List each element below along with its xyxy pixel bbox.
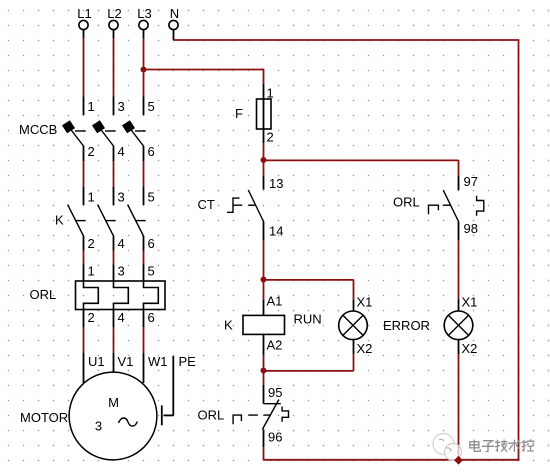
- svg-text:6: 6: [148, 236, 155, 251]
- svg-text:6: 6: [148, 310, 155, 325]
- svg-text:ORL: ORL: [30, 287, 57, 302]
- svg-text:L2: L2: [107, 6, 121, 21]
- wire N rail right: [518, 40, 520, 461]
- overload ORL box: [76, 281, 166, 310]
- wire ORL to motor 3: [143, 327, 145, 353]
- svg-text:4: 4: [118, 144, 125, 159]
- overload contact ORL-NO link: [443, 204, 451, 206]
- svg-text:96: 96: [268, 430, 282, 445]
- wire MCCB to K pole 2: [113, 161, 115, 187]
- terminal L3: [139, 20, 148, 29]
- watermark text kong: [521, 440, 526, 451]
- svg-text:U1: U1: [88, 354, 105, 369]
- overload ORL heater 1: [84, 281, 99, 310]
- lamp RUN cross: [343, 315, 363, 335]
- wire node3 down: [263, 371, 265, 386]
- wire ORL pin stub pole 2: [113, 265, 115, 282]
- contactor K pole 2 dash: [105, 220, 116, 222]
- svg-text:14: 14: [269, 224, 283, 239]
- motor M1 body: [69, 372, 157, 460]
- wire node1 to ORL97 branch: [264, 159, 459, 161]
- svg-text:ERROR: ERROR: [383, 318, 430, 333]
- wire CT to node2: [263, 240, 265, 280]
- wire ORL pin stub pole 1: [83, 265, 85, 282]
- svg-text:2: 2: [88, 236, 95, 251]
- svg-text:5: 5: [148, 99, 155, 114]
- svg-text:L3: L3: [137, 6, 151, 21]
- svg-text:4: 4: [118, 236, 125, 251]
- svg-text:A1: A1: [267, 294, 283, 309]
- contactor K pole 3 contact arm: [128, 205, 144, 236]
- wire error lamp to bottom: [458, 354, 460, 460]
- fuse F body: [257, 99, 272, 129]
- wire node2 to lamp X1: [264, 279, 354, 281]
- terminal L1: [79, 20, 88, 29]
- wire motor pin V1: [113, 353, 115, 373]
- wire L3 junction to MCCB: [143, 70, 145, 97]
- svg-text:1: 1: [88, 264, 95, 279]
- overload contact ORL-NO actuator: [429, 205, 439, 214]
- wire fuse to node: [263, 143, 265, 160]
- wire N stub: [173, 30, 175, 40]
- node control junction 3: [261, 368, 267, 374]
- wire K to ORL pole 3: [143, 251, 145, 265]
- wire K to ORL pole 2: [113, 251, 115, 265]
- wire motor pin U1: [83, 353, 85, 383]
- wire ORL to motor 1: [83, 327, 85, 353]
- contactor K pole 2 bottom pin: [113, 236, 115, 251]
- wire L2 stub: [113, 30, 115, 38]
- svg-text:ORL: ORL: [198, 408, 225, 423]
- motor frame PE bar: [161, 405, 163, 425]
- wire L2 to MCCB: [113, 38, 115, 97]
- svg-text:3: 3: [118, 190, 125, 205]
- contactor K pole 3 top pin: [143, 187, 145, 205]
- svg-text:3: 3: [118, 264, 125, 279]
- lamp RUN pin X1 stub: [353, 300, 355, 311]
- svg-text:M: M: [108, 395, 119, 410]
- breaker MCCB pole 3 top pin: [143, 97, 145, 116]
- fuse F element: [263, 99, 265, 129]
- terminal L2: [109, 20, 118, 29]
- lamp ERROR cross: [448, 315, 468, 335]
- node L3 junction: [141, 67, 147, 73]
- breaker MCCB pole 1 release dash: [75, 130, 86, 132]
- svg-text:3: 3: [118, 99, 125, 114]
- svg-text:X2: X2: [357, 341, 373, 356]
- wire N rail top: [174, 39, 520, 41]
- svg-text:1: 1: [88, 99, 95, 114]
- contactor K pole 3 dash: [135, 220, 146, 222]
- breaker MCCB pole 1 contact arm: [69, 127, 84, 147]
- overload contact ORL-NC actuator: [233, 415, 241, 424]
- wire ORL pin bottom stub 2: [113, 310, 115, 328]
- node control junction 1: [261, 157, 267, 163]
- wire K to ORL pole 1: [83, 251, 85, 265]
- wire L3 to junction: [143, 38, 145, 70]
- watermark text shu: [508, 440, 520, 452]
- svg-text:5: 5: [148, 190, 155, 205]
- breaker MCCB pole 1 top pin: [83, 97, 85, 116]
- coil K pin A2 stub: [263, 334, 265, 355]
- button CT contact arm: [248, 190, 263, 222]
- wire node3 to lamp X2: [264, 370, 354, 372]
- button CT link: [248, 204, 255, 206]
- button CT top pin: [263, 176, 265, 190]
- overload contact ORL-NC top pin: [263, 385, 265, 404]
- breaker MCCB pole 1 mechanism square: [62, 120, 75, 133]
- svg-text:V1: V1: [118, 354, 134, 369]
- breaker MCCB pole 3 bottom pin: [143, 146, 145, 161]
- overload ORL heater 2: [114, 281, 129, 310]
- node bottom junction: [454, 456, 463, 465]
- wire ORL pin bottom stub 3: [143, 310, 145, 328]
- contactor K pole 1 top pin: [83, 187, 85, 205]
- wire PE elbow: [164, 414, 174, 416]
- overload contact ORL-NC seat: [264, 403, 281, 405]
- contactor K pole 2 contact arm: [98, 205, 114, 236]
- svg-text:MCCB: MCCB: [19, 122, 57, 137]
- fuse F bottom pin: [263, 129, 265, 143]
- wire ORL to motor 2: [113, 327, 115, 353]
- overload contact ORL-NO top pin: [458, 176, 460, 190]
- contactor K pole 1 bottom pin: [83, 236, 85, 251]
- svg-text:5: 5: [148, 264, 155, 279]
- watermark logo circles: [433, 434, 462, 461]
- wire lamp to node3 branch: [353, 354, 355, 371]
- breaker MCCB pole 2 mechanism square: [92, 120, 105, 133]
- svg-text:X1: X1: [357, 295, 373, 310]
- coil K body: [243, 315, 285, 334]
- svg-text:2: 2: [88, 144, 95, 159]
- svg-text:6: 6: [148, 144, 155, 159]
- breaker MCCB pole 2 bottom pin: [113, 146, 115, 161]
- contactor K pole 1 dash: [75, 220, 86, 222]
- overload ORL heater 3: [144, 281, 159, 310]
- svg-text:K: K: [55, 213, 64, 228]
- overload contact ORL-NC arm: [262, 400, 279, 430]
- fuse F top pin: [263, 84, 265, 99]
- overload contact ORL-NO trip hook: [477, 196, 484, 216]
- svg-text:K: K: [224, 318, 233, 333]
- contactor K pole 1 contact arm: [68, 205, 84, 236]
- svg-text:4: 4: [118, 310, 125, 325]
- wire coil to node3: [263, 355, 265, 371]
- wire L1 stub: [83, 30, 85, 38]
- breaker MCCB pole 3 contact arm: [129, 127, 144, 147]
- breaker MCCB pole 3 release dash: [135, 130, 146, 132]
- wire node1 down: [263, 160, 265, 176]
- svg-text:N: N: [170, 6, 179, 21]
- lamp RUN pin X2 stub: [353, 340, 355, 354]
- wire ORL pin stub pole 3: [143, 265, 145, 282]
- wire ORL pin bottom stub 1: [83, 310, 85, 328]
- svg-text:2: 2: [267, 130, 274, 145]
- breaker MCCB pole 2 top pin: [113, 97, 115, 116]
- wire L3 stub: [143, 30, 145, 38]
- svg-text:98: 98: [464, 221, 478, 236]
- overload contact ORL-NC trip hook: [282, 407, 288, 422]
- terminal N: [169, 20, 178, 29]
- svg-text:X1: X1: [462, 295, 478, 310]
- wire L3 branch to fuse: [144, 69, 264, 71]
- breaker MCCB pole 2 contact arm: [99, 127, 114, 147]
- wire MCCB to K pole 3: [143, 161, 145, 187]
- overload contact ORL-NC bottom pin: [263, 429, 265, 447]
- contactor K pole 2 top pin: [113, 187, 115, 205]
- breaker MCCB pole 1 bottom pin: [83, 146, 85, 161]
- svg-text:X2: X2: [462, 341, 478, 356]
- breaker MCCB pole 2 release dash: [105, 130, 116, 132]
- wire PE line: [172, 356, 174, 415]
- svg-text:A2: A2: [267, 338, 283, 353]
- wire branch to 97: [458, 160, 460, 176]
- overload contact ORL-NO arm: [443, 190, 458, 221]
- svg-text:ORL: ORL: [393, 195, 420, 210]
- svg-text:L1: L1: [77, 6, 91, 21]
- breaker MCCB pole 3 mechanism square: [122, 120, 135, 133]
- svg-text:13: 13: [269, 176, 283, 191]
- watermark text ji: [495, 440, 507, 452]
- wire branch corner down: [263, 69, 265, 84]
- button CT bottom pin: [263, 222, 265, 241]
- wire 96 to bottom rail: [263, 447, 265, 460]
- watermark text zi: [482, 441, 494, 452]
- svg-text:RUN: RUN: [294, 312, 322, 327]
- svg-text:95: 95: [268, 385, 282, 400]
- wire 98 to lamp: [458, 240, 460, 299]
- overload contact ORL-NO bottom pin: [458, 222, 460, 241]
- svg-text:PE: PE: [179, 354, 197, 369]
- watermark text dian: [470, 440, 481, 452]
- lamp ERROR body: [444, 311, 473, 340]
- wire node2 down: [263, 280, 265, 301]
- overload contact ORL-NC dashed link: [248, 414, 270, 416]
- node control junction 2: [261, 277, 267, 283]
- svg-text:3: 3: [95, 419, 102, 434]
- svg-text:CT: CT: [198, 197, 215, 212]
- coil K pin A1 stub: [263, 300, 265, 315]
- lamp ERROR pin X2 stub: [458, 340, 460, 354]
- button CT actuator: [227, 198, 242, 212]
- svg-text:1: 1: [88, 190, 95, 205]
- lamp RUN body: [339, 311, 368, 340]
- wire MCCB to K pole 1: [83, 161, 85, 187]
- wire lamp branch down: [353, 280, 355, 301]
- contactor K pole 3 bottom pin: [143, 236, 145, 251]
- wire L1 to MCCB: [83, 38, 85, 97]
- svg-text:MOTOR: MOTOR: [20, 410, 68, 425]
- svg-text:97: 97: [464, 174, 478, 189]
- svg-text:2: 2: [88, 310, 95, 325]
- motor sine symbol: [119, 418, 138, 426]
- svg-text:W1: W1: [148, 354, 168, 369]
- wire motor pin W1: [143, 353, 145, 383]
- svg-text:F: F: [235, 106, 243, 121]
- wire bottom rail: [264, 459, 520, 461]
- lamp ERROR pin X1 stub: [458, 299, 460, 311]
